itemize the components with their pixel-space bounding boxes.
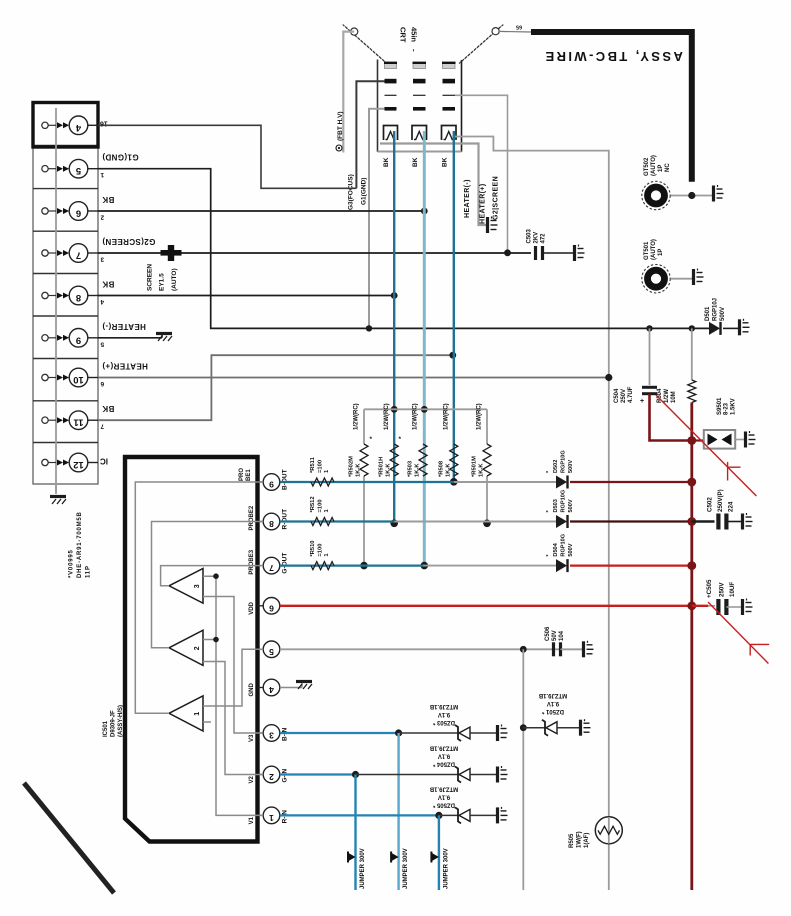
- resistor R511 =100: [311, 478, 334, 486]
- socket bottom edge: [378, 151, 462, 153]
- socket right edge: [461, 60, 463, 152]
- svg-text:(FBT H.V): (FBT H.V): [337, 111, 344, 141]
- svg-text:8-23: 8-23: [724, 402, 730, 415]
- ground C502: [743, 513, 753, 530]
- diode D501: [709, 322, 721, 335]
- svg-text:MTZJ9.1B: MTZJ9.1B: [538, 692, 567, 698]
- svg-text:C502: C502: [707, 497, 714, 512]
- svg-text:G1(GND): G1(GND): [361, 178, 368, 205]
- ground IC501 pin4: [296, 682, 312, 690]
- connector TD501 outer body: [33, 103, 98, 484]
- svg-text:DZ504 *: DZ504 *: [432, 761, 455, 767]
- wire D504 to HV bus: [570, 564, 692, 566]
- svg-text:250V: 250V: [621, 389, 627, 403]
- wire pin6 to KG: [98, 210, 424, 212]
- wire KB cathode drop: [453, 131, 455, 482]
- junction VDD / HV bus: [687, 601, 696, 610]
- connector pin 7: [42, 244, 98, 263]
- resistor R505 fusible: [595, 817, 622, 844]
- svg-text:224: 224: [728, 501, 735, 512]
- svg-text:2: 2: [194, 646, 201, 650]
- wire G-OUT gray: [423, 565, 556, 567]
- IC501 pin 5: [258, 641, 280, 658]
- ground GT502: [714, 185, 724, 202]
- junction pin11/KB: [449, 352, 456, 359]
- svg-text:S9501: S9501: [717, 397, 723, 415]
- page boundary diagonal: [24, 783, 114, 893]
- capacitor C505 electrolytic: [718, 599, 726, 615]
- svg-text:*R508: *R508: [438, 460, 444, 477]
- connector pin-4 cell thick frame: [33, 103, 98, 148]
- wire G-OUT teal: [280, 564, 423, 566]
- svg-text:250V: 250V: [719, 582, 726, 597]
- svg-text:BK: BK: [102, 280, 114, 289]
- wire B-IN blue: [280, 732, 399, 734]
- test point SCREEN cross: [161, 250, 182, 256]
- socket pin row D: [385, 107, 456, 111]
- svg-text:8: 8: [76, 292, 81, 303]
- junction G2 drop / screen line: [504, 249, 511, 256]
- wire socket to gray bus: [455, 137, 609, 891]
- connector internal bus wire: [55, 108, 57, 492]
- svg-text:9.1V: 9.1V: [438, 793, 450, 799]
- wire amp1 lower stub: [203, 721, 211, 723]
- wire heater(-) rail: [380, 144, 486, 226]
- svg-text:DZ503 *: DZ503 *: [432, 719, 455, 725]
- junction G1/C504 branch: [646, 325, 652, 331]
- svg-text:9.1V: 9.1V: [438, 753, 450, 759]
- ground DZ501: [581, 719, 591, 736]
- resistor R504 10M: [688, 380, 696, 403]
- svg-text:D503: D503: [553, 499, 559, 512]
- svg-text:1: 1: [194, 712, 201, 716]
- IC501 pin 7: [258, 557, 280, 574]
- svg-text:PROBE3: PROBE3: [249, 549, 255, 574]
- svg-text:GND: GND: [249, 683, 255, 697]
- socket cathode hook contacts: [384, 126, 457, 141]
- junction pin6/KG: [421, 208, 428, 215]
- svg-text:7: 7: [100, 423, 104, 430]
- svg-text:6: 6: [76, 208, 81, 219]
- svg-text:SCREEN: SCREEN: [147, 264, 154, 291]
- junction R-OUT / HV bus: [687, 517, 696, 526]
- resistor R508 1K-K: [450, 444, 458, 476]
- svg-text:JUMPER 300V: JUMPER 300V: [360, 848, 366, 889]
- svg-text:1: 1: [269, 813, 274, 823]
- svg-text:JUMPER 300V: JUMPER 300V: [403, 848, 409, 889]
- svg-text:1.5KV: 1.5KV: [731, 398, 737, 415]
- wire G1 gnd drop: [369, 109, 385, 329]
- svg-text:G2|SCREEN: G2|SCREEN: [493, 176, 500, 220]
- jumper symbol B-IN: [392, 853, 399, 861]
- svg-text:7: 7: [269, 563, 274, 573]
- svg-text:C503: C503: [527, 228, 533, 243]
- diode D503: [556, 515, 568, 528]
- svg-text:GT501: GT501: [644, 241, 650, 260]
- diode D502: [556, 476, 568, 489]
- svg-text:HEATER(-): HEATER(-): [102, 322, 146, 331]
- wire KR cathode drop: [393, 131, 395, 523]
- wire FBT H.V stub: [343, 32, 354, 153]
- ground C506: [584, 641, 594, 658]
- svg-text:*R511: *R511: [310, 456, 316, 473]
- junction G-OUT / HV bus: [687, 561, 696, 570]
- wire pin10 heater(+) to bus: [98, 377, 609, 379]
- resistor R501M 1K-K: [486, 409, 488, 444]
- wire aux drop: [522, 649, 524, 890]
- svg-text:+C505: +C505: [706, 579, 713, 598]
- svg-text:*R501H: *R501H: [379, 457, 385, 477]
- wire screen line: [98, 252, 531, 254]
- svg-text:11: 11: [73, 417, 84, 428]
- ground pin9 heater(-): [156, 334, 172, 342]
- socket pin row B: [385, 79, 456, 84]
- svg-text:3: 3: [100, 256, 104, 263]
- spark gap S9501: [704, 430, 735, 449]
- svg-text:104: 104: [559, 630, 565, 641]
- svg-text:45in: 45in: [410, 27, 419, 42]
- svg-text:1/2W(RC): 1/2W(RC): [354, 403, 360, 430]
- junction heater(+)/gray bus: [605, 374, 612, 381]
- wire amp1 to pin5: [203, 649, 263, 706]
- socket left diagonal pin wire: [342, 24, 385, 62]
- svg-text:1K-K: 1K-K: [445, 463, 451, 477]
- connector pin 11: [42, 411, 98, 430]
- ground GT501: [694, 269, 704, 286]
- wire circle to TBC: [499, 30, 531, 33]
- svg-text:7: 7: [76, 250, 81, 261]
- svg-text:1/2W(RC): 1/2W(RC): [413, 403, 419, 430]
- svg-text:1: 1: [100, 171, 104, 178]
- wire DZ501 to ground: [557, 727, 579, 729]
- svg-text:*R502M: *R502M: [349, 456, 355, 477]
- junction G-IN/jumper: [352, 771, 359, 778]
- svg-text:R505: R505: [569, 833, 575, 848]
- svg-text:HEATER(+): HEATER(+): [102, 362, 148, 371]
- ground D501: [740, 319, 750, 336]
- wire C502 to ground: [726, 521, 741, 523]
- HV bus vertical: [690, 403, 693, 891]
- svg-text:2KV: 2KV: [534, 232, 540, 244]
- svg-text:1K-K: 1K-K: [415, 463, 421, 477]
- op-amp buffer 2: [169, 630, 203, 665]
- svg-text:BK: BK: [442, 157, 449, 167]
- wire pin8 to KR: [98, 295, 394, 297]
- svg-text:MTZJ9.1B: MTZJ9.1B: [429, 745, 458, 751]
- svg-text:MTZJ9.1B: MTZJ9.1B: [429, 785, 458, 791]
- junction amp2 output: [213, 637, 219, 643]
- svg-text:EY1.5: EY1.5: [159, 273, 166, 291]
- wire C503 to ground: [543, 252, 574, 254]
- annotation arrow C504: [656, 395, 756, 496]
- socket pin row A: [384, 63, 456, 69]
- svg-text:DZ505 *: DZ505 *: [432, 801, 455, 807]
- svg-text:RGP10G: RGP10G: [561, 450, 567, 473]
- wire DZ504 to ground: [470, 774, 496, 776]
- wire GT501 to ground: [671, 278, 693, 280]
- wire pin5 line: [280, 648, 585, 650]
- capacitor C506: [554, 642, 561, 656]
- svg-text:1K-K: 1K-K: [356, 463, 362, 477]
- svg-text:4: 4: [269, 685, 274, 695]
- wire G-IN to zener: [356, 774, 459, 776]
- jumper symbol G-IN: [349, 853, 356, 861]
- svg-text:DHE-AR91-700M5B: DHE-AR91-700M5B: [77, 511, 83, 578]
- wire jumper drop G-IN: [354, 775, 356, 891]
- wire spark gap to ground: [735, 439, 744, 441]
- svg-text:DZ501 *: DZ501 *: [541, 708, 564, 714]
- svg-text:D502: D502: [553, 460, 559, 473]
- svg-text:=100: =100: [318, 544, 324, 557]
- label (FBT H.V): [336, 145, 342, 151]
- ground DZ505: [498, 807, 508, 824]
- wire bus to spark gap: [692, 439, 704, 441]
- resistor R510 =100: [311, 562, 334, 570]
- zener DZ505: [455, 807, 470, 823]
- svg-text:6: 6: [269, 603, 274, 613]
- wire DZ505 to ground: [470, 814, 496, 816]
- wire G2 screen drop: [455, 95, 508, 253]
- junction B-IN/jumper: [395, 729, 402, 736]
- svg-text:4.7UF: 4.7UF: [628, 386, 634, 403]
- svg-text:9.1V: 9.1V: [547, 700, 559, 706]
- IC501 pin 8: [258, 513, 280, 530]
- junction HV bus / C504: [687, 436, 696, 445]
- wire R-OUT gray: [394, 521, 556, 523]
- svg-text:G-OUT: G-OUT: [282, 553, 289, 574]
- svg-text:BK: BK: [102, 195, 114, 204]
- svg-text:500V: 500V: [568, 460, 574, 473]
- wire D502 to HV bus: [570, 481, 692, 483]
- svg-text:GT502: GT502: [644, 157, 650, 176]
- svg-text:+: +: [640, 398, 644, 405]
- wire pin4 to socket G1: [98, 125, 356, 188]
- wire R-IN blue: [280, 814, 439, 816]
- capacitor C502: [718, 514, 726, 530]
- svg-text:VDD: VDD: [249, 601, 255, 614]
- IC501 pin 9: [258, 474, 280, 491]
- svg-text:D501: D501: [705, 306, 711, 321]
- svg-text:3: 3: [269, 731, 274, 741]
- svg-text:2: 2: [269, 772, 274, 782]
- jumper symbol R-IN: [432, 853, 439, 861]
- svg-text:HEATER(+): HEATER(+): [480, 183, 487, 224]
- svg-text:V1: V1: [249, 816, 255, 824]
- ground C505: [743, 599, 753, 616]
- svg-text:9.1V: 9.1V: [438, 711, 450, 717]
- zener DZ503: [455, 725, 470, 741]
- zener DZ501: [542, 720, 557, 736]
- wire probe3 to amp3: [161, 566, 264, 586]
- IC501 pin 1: [258, 807, 280, 824]
- svg-text:5: 5: [269, 647, 274, 657]
- wire R504 lead: [691, 328, 693, 380]
- wire jumper drop B-IN: [397, 733, 399, 890]
- socket left edge: [377, 60, 379, 152]
- resistor R501H 1K-K: [390, 444, 398, 476]
- wire amp outputs to V1: [203, 576, 263, 815]
- wire D501 to ground: [723, 327, 738, 329]
- svg-text:1/2W(RC): 1/2W(RC): [384, 403, 390, 430]
- junction amp3 output: [213, 573, 219, 579]
- svg-text:*R501M: *R501M: [472, 456, 478, 477]
- ground DZ503: [498, 725, 508, 742]
- svg-text:BE1: BE1: [246, 469, 252, 481]
- wire B-IN to zener: [399, 732, 458, 734]
- socket pin row C: [385, 94, 456, 96]
- svg-text:BK: BK: [383, 157, 390, 167]
- svg-text:250V(P): 250V(P): [717, 489, 724, 512]
- svg-text:MTZJ9.1B: MTZJ9.1B: [429, 703, 458, 709]
- capacitor C503: [536, 246, 543, 260]
- wire R-IN to zener: [439, 814, 458, 816]
- wire KG cathode drop: [423, 131, 426, 566]
- wire amp2 to V2: [203, 662, 263, 775]
- wire B-OUT teal: [280, 481, 454, 483]
- svg-text:G3(FOCUS): G3(FOCUS): [347, 174, 354, 210]
- svg-text:1P: 1P: [658, 165, 664, 172]
- junction G1/R504 branch: [689, 325, 695, 331]
- GT502 (AUTO) terminal: [642, 181, 670, 209]
- connector cell dividers: [33, 146, 98, 443]
- IC501 pin 6: [258, 598, 280, 615]
- junction KR/rail: [391, 406, 398, 413]
- svg-text:472: 472: [541, 233, 547, 244]
- svg-text:1(AF): 1(AF): [584, 833, 590, 848]
- junction GT502/TBC: [688, 192, 695, 199]
- wire G3 focus drop: [356, 81, 384, 188]
- svg-text:*R512: *R512: [310, 496, 316, 512]
- svg-text:1/2W: 1/2W: [664, 389, 670, 403]
- junction R501M bottom: [483, 520, 491, 528]
- svg-text:1/2W(RC): 1/2W(RC): [477, 403, 483, 430]
- svg-text:65: 65: [516, 24, 522, 30]
- IC501 pin 2: [258, 766, 280, 783]
- svg-text:RGP10G: RGP10G: [561, 534, 567, 557]
- socket right diagonal pin wire: [462, 24, 505, 62]
- capacitor C504 electrolytic: [642, 387, 657, 393]
- svg-text:BK: BK: [102, 404, 114, 413]
- wire bus to C502: [692, 520, 715, 522]
- svg-text:*V00995: *V00995: [69, 549, 75, 578]
- svg-text:D504: D504: [553, 542, 559, 556]
- svg-text:1/2W(RC): 1/2W(RC): [444, 403, 450, 430]
- connector pin 10: [42, 368, 98, 387]
- connector pin 6: [42, 202, 98, 221]
- svg-text:NC: NC: [665, 163, 671, 172]
- svg-text:9: 9: [76, 334, 81, 345]
- junction R-IN/jumper: [435, 812, 442, 819]
- wire B-OUT gray: [454, 481, 556, 483]
- svg-text:8: 8: [269, 519, 274, 529]
- svg-text:PRO: PRO: [239, 468, 245, 481]
- svg-text:(ASSY-H/S): (ASSY-H/S): [118, 705, 124, 737]
- svg-text:500V: 500V: [568, 499, 574, 512]
- svg-text:11P: 11P: [86, 565, 92, 578]
- svg-text:ASSY, TBC-WIRE: ASSY, TBC-WIRE: [543, 49, 683, 64]
- svg-text:50V: 50V: [552, 630, 558, 641]
- svg-text:1W(F): 1W(F): [577, 831, 583, 848]
- wire G-IN blue: [280, 773, 356, 775]
- wire C506 ground stub: [561, 648, 583, 650]
- junction B-OUT / HV bus: [687, 478, 696, 487]
- wire probe2 to amp2: [152, 522, 264, 648]
- svg-text:R-OUT: R-OUT: [282, 509, 289, 530]
- svg-text:3: 3: [194, 584, 201, 588]
- junction R502M bottom: [360, 562, 368, 570]
- op-amp buffer 3: [169, 569, 203, 604]
- junction KR end: [390, 520, 398, 528]
- junction pin5 / C-line: [520, 646, 527, 653]
- junction G1 drop / G1 line: [366, 325, 372, 331]
- svg-text:CRT: CRT: [399, 27, 408, 43]
- svg-text:12: 12: [73, 459, 84, 470]
- wire G1 line: [98, 169, 709, 329]
- svg-text:(AUTO): (AUTO): [651, 155, 657, 176]
- wire IC gnd pin: [280, 687, 302, 689]
- svg-text:10M: 10M: [671, 391, 677, 403]
- wire pin11 via riser to KB: [98, 355, 453, 420]
- diode D504: [556, 559, 568, 572]
- junction KB end: [450, 478, 458, 486]
- svg-text:RGP10G: RGP10G: [561, 490, 567, 513]
- svg-text:G1(GND): G1(GND): [102, 153, 139, 162]
- wire to DZ501: [523, 727, 545, 729]
- svg-text:IC501: IC501: [103, 720, 109, 737]
- svg-text:1P: 1P: [658, 249, 664, 256]
- ground S9501: [746, 431, 756, 448]
- ground heater(-): [488, 217, 498, 234]
- svg-text:C504: C504: [614, 388, 620, 403]
- svg-text:4: 4: [100, 298, 104, 305]
- svg-text:=100: =100: [318, 499, 324, 512]
- svg-text:500V: 500V: [568, 543, 574, 556]
- connector pin 12: [42, 453, 98, 472]
- svg-text:(AUTO): (AUTO): [651, 239, 657, 260]
- svg-text:10: 10: [73, 374, 84, 385]
- svg-text:6: 6: [100, 380, 104, 387]
- svg-text:G2(SCREEN): G2(SCREEN): [102, 237, 155, 246]
- ground below connector: [55, 484, 57, 494]
- svg-text:BK: BK: [412, 157, 419, 167]
- svg-text:C506: C506: [545, 626, 551, 641]
- annotation arrow C505: [708, 602, 768, 664]
- svg-text:5: 5: [100, 340, 104, 347]
- svg-text:RGP10J: RGP10J: [713, 298, 719, 321]
- svg-text:9: 9: [269, 480, 274, 490]
- svg-text:*R503: *R503: [408, 460, 414, 477]
- connector pin 4: [42, 116, 98, 135]
- svg-text:R-IN: R-IN: [282, 810, 289, 824]
- wire amp3 to V3: [203, 597, 263, 734]
- svg-text:PROBE2: PROBE2: [249, 505, 255, 530]
- junction DZ501: [520, 724, 527, 731]
- wire ASSY TBC thick: [531, 32, 692, 182]
- wire R-OUT teal: [280, 520, 394, 522]
- svg-text:(AUTO): (AUTO): [171, 268, 178, 291]
- IC501 pin 4: [258, 679, 280, 696]
- svg-text:B-OUT: B-OUT: [282, 469, 289, 490]
- resistor R503 1K-K: [419, 444, 427, 476]
- junction KG/rail: [421, 406, 428, 413]
- resistor R502M 1K-K: [363, 409, 365, 444]
- svg-text:JUMPER 300V: JUMPER 300V: [443, 848, 449, 889]
- wire bus to C505: [692, 605, 709, 607]
- svg-text:5: 5: [75, 165, 81, 176]
- svg-text:V3: V3: [249, 734, 255, 742]
- wire pin9 to ground: [98, 337, 162, 339]
- wire C505 to ground: [726, 606, 741, 608]
